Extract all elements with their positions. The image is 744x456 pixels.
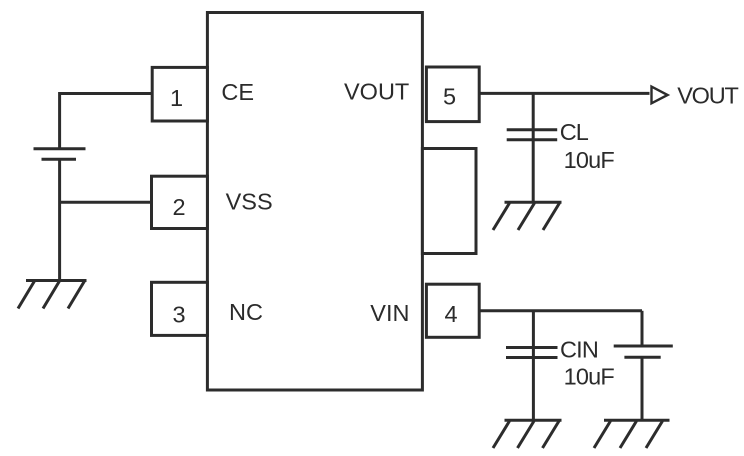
svg-text:3: 3 (172, 301, 185, 327)
svg-text:CIN: CIN (560, 337, 598, 363)
svg-text:VIN: VIN (370, 300, 409, 326)
svg-text:CE: CE (221, 79, 254, 105)
svg-text:1: 1 (170, 85, 183, 111)
svg-text:VOUT: VOUT (344, 79, 409, 105)
svg-text:CL: CL (560, 119, 589, 145)
svg-text:10uF: 10uF (564, 147, 615, 173)
svg-text:5: 5 (443, 84, 456, 110)
svg-text:VOUT: VOUT (677, 82, 738, 108)
svg-text:NC: NC (229, 299, 263, 325)
svg-text:2: 2 (172, 194, 185, 220)
svg-text:10uF: 10uF (564, 364, 615, 390)
svg-text:VSS: VSS (226, 189, 273, 215)
svg-text:4: 4 (445, 301, 458, 327)
